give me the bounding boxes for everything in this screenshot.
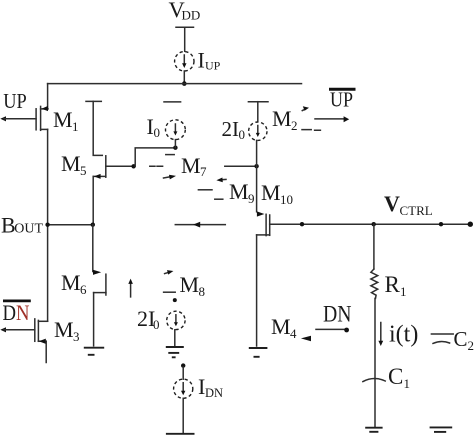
wire M5 source down to BOUT (92, 176, 94, 224)
svg-text:M: M (180, 272, 200, 297)
svg-text:UP: UP (3, 89, 27, 113)
svg-text:4: 4 (290, 326, 297, 341)
wire VDD to IUP (184, 27, 186, 51)
wire dot to IDN (182, 367, 184, 379)
bias T-bar over I0 (164, 101, 181, 103)
node R1 branch junction (372, 222, 376, 226)
svg-text:M: M (61, 151, 81, 176)
transistor M8 arrow (165, 270, 174, 275)
ground C2 branch (430, 427, 453, 432)
node rail-IUP junction (182, 81, 187, 86)
transistor M5 (93, 156, 105, 179)
wire VCTRL to R1 (373, 224, 375, 269)
node BOUT label (1, 213, 44, 238)
I0 arrow (174, 124, 176, 133)
svg-text:1: 1 (404, 376, 411, 391)
2I0 left arrow (175, 315, 177, 324)
IUP arrow (183, 55, 185, 65)
ground mid (166, 347, 184, 357)
bias T-bar over M5 (86, 100, 101, 102)
wire M10 drain to VCTRL (270, 223, 470, 225)
current direction up arrow (128, 279, 133, 297)
wire mid net to M10 column (225, 165, 257, 167)
UP-bar input label (329, 88, 356, 112)
wire IUP to rail (183, 71, 185, 84)
current source IDN (174, 379, 193, 398)
svg-text:0: 0 (153, 317, 160, 332)
transistor M2 fragment arrow (302, 106, 309, 111)
M9 label (229, 179, 255, 206)
node C2 branch junction (439, 222, 443, 226)
capacitor C2 (431, 334, 453, 343)
svg-text:M: M (181, 153, 201, 178)
svg-text:6: 6 (80, 282, 87, 297)
svg-text:0: 0 (239, 127, 246, 142)
DN-bar input label (3, 300, 31, 325)
M2 label (272, 106, 298, 133)
svg-text:9: 9 (248, 191, 255, 206)
M8 label (180, 272, 206, 299)
svg-text:M: M (54, 317, 74, 342)
transistor M7 arrow (164, 175, 177, 180)
svg-text:2: 2 (291, 118, 298, 133)
wire UP to M1 gate (4, 118, 36, 120)
M1 label (53, 107, 79, 134)
M10 label (261, 180, 293, 207)
node M10 drain junction (300, 222, 304, 226)
node M8 source dot (173, 298, 177, 302)
arrow on M8 drain wire (193, 222, 200, 228)
UP-bar wire arrowhead (344, 116, 350, 122)
wire bar to 2I0 (257, 102, 259, 122)
wire I0 to node (174, 140, 176, 148)
svg-text:2: 2 (468, 338, 474, 353)
node mid junction (254, 164, 258, 168)
svg-text:3: 3 (73, 329, 80, 344)
current source 2I0 right (249, 122, 267, 140)
node under I0 (173, 146, 177, 150)
current source 2I0 left (167, 311, 185, 329)
wire M1 source to BOUT to M3 (47, 129, 49, 321)
2I0 left value label (137, 306, 160, 332)
node wire end (468, 222, 473, 227)
M4 label (271, 314, 297, 341)
2I0 right arrow (257, 126, 259, 135)
svg-text:M: M (271, 314, 291, 339)
DN wire end dot (344, 328, 349, 333)
transistor M9 fragment dash (198, 189, 212, 191)
wire 2I0 to ground (174, 330, 176, 346)
svg-text:2I: 2I (222, 117, 240, 141)
svg-text:1: 1 (400, 284, 407, 299)
wire BOUT (48, 224, 93, 226)
wire dashes M5 gate net (150, 165, 163, 167)
svg-text:M: M (261, 180, 281, 205)
net VDD label (169, 0, 201, 23)
wire UP-bar to M2 (315, 118, 345, 120)
svg-text:5: 5 (80, 163, 87, 178)
wire DN-bar to M3 gate (4, 329, 35, 331)
svg-text:i(t): i(t) (389, 322, 418, 348)
net VCTRL label (384, 191, 433, 218)
IUP value label (198, 48, 221, 73)
2I0 right value label (222, 117, 246, 142)
wire M8 drain segment (175, 224, 225, 226)
svg-text:10: 10 (280, 192, 293, 207)
node M5 gate junction (131, 164, 135, 168)
node BOUT right junction (91, 223, 95, 227)
svg-text:M: M (61, 270, 81, 295)
C1 label (388, 364, 410, 391)
wire IDN to ground (182, 398, 184, 433)
ground M4 (249, 348, 268, 357)
svg-text:7: 7 (200, 164, 207, 179)
svg-text:OUT: OUT (14, 222, 43, 237)
ground IDN (166, 433, 195, 435)
wire bias to M5 drain (93, 101, 102, 155)
wire M6 source to ground (93, 293, 95, 346)
transistor M9 fragment dash lower (215, 198, 223, 200)
svg-text:R: R (385, 272, 401, 297)
svg-text:I: I (198, 48, 205, 73)
transistor M6 (93, 270, 106, 295)
i(t) arrow (378, 323, 383, 347)
VDD supply bar (176, 26, 194, 28)
C2 label (454, 327, 474, 353)
wire DN input (316, 328, 345, 330)
transistor M2 fragment dashes (302, 129, 320, 132)
UP input arrow (0, 116, 6, 121)
svg-text:M: M (53, 107, 73, 132)
transistor M7 fragment dash upper (166, 154, 174, 156)
M6 label (61, 270, 87, 297)
M10 gate arrow (257, 211, 265, 216)
svg-text:DN: DN (205, 386, 223, 400)
svg-text:1: 1 (72, 119, 79, 134)
DN arrow to M4 (301, 336, 311, 341)
svg-text:DN: DN (323, 302, 352, 327)
resistor R1 (371, 269, 378, 298)
transistor M9 arrow (216, 178, 226, 183)
IDN arrow (182, 383, 184, 392)
DN-bar input arrow (0, 327, 6, 332)
svg-text:DD: DD (182, 8, 201, 23)
svg-text:UP: UP (205, 59, 221, 73)
wire 2I0 to M10 (256, 140, 258, 211)
wire M10 source to ground (256, 235, 258, 346)
svg-text:DN: DN (3, 300, 30, 325)
svg-text:8: 8 (199, 284, 206, 299)
M7 label (181, 153, 207, 179)
capacitor C1 (363, 379, 385, 382)
svg-text:C: C (454, 327, 468, 351)
wire R1 to C1 (374, 298, 376, 426)
M5 label (61, 151, 87, 178)
wire rail to M1 drain (47, 84, 49, 109)
current source I0 (166, 120, 186, 140)
M3 label (54, 317, 80, 344)
svg-text:V: V (384, 191, 400, 216)
svg-text:UP: UP (330, 88, 353, 112)
I0 value label (147, 114, 161, 140)
transistor M10 (257, 214, 270, 235)
svg-text:M: M (272, 106, 292, 131)
transistor M3 (35, 319, 48, 344)
svg-text:M: M (229, 179, 249, 204)
node BOUT left junction (45, 223, 49, 227)
bias T-bar over M2 (248, 101, 268, 103)
transistor M1 (36, 106, 48, 130)
svg-text:C: C (388, 364, 403, 389)
svg-text:0: 0 (154, 125, 161, 140)
node IDN top dot (181, 363, 185, 367)
wire M5 gate (106, 165, 134, 167)
wire top rail (48, 83, 302, 85)
IDN value label (198, 374, 223, 400)
transistor M8 fragment dash (164, 291, 176, 293)
ground M6 (84, 348, 104, 355)
wire gate up to I0 (135, 148, 175, 166)
ground R1-C1 branch (365, 428, 382, 432)
R1 label (385, 272, 407, 299)
svg-text:CTRL: CTRL (400, 203, 433, 218)
current source IUP (175, 52, 194, 71)
wire M3 source (45, 341, 47, 362)
wire BOUT to M6 gate (92, 225, 94, 272)
